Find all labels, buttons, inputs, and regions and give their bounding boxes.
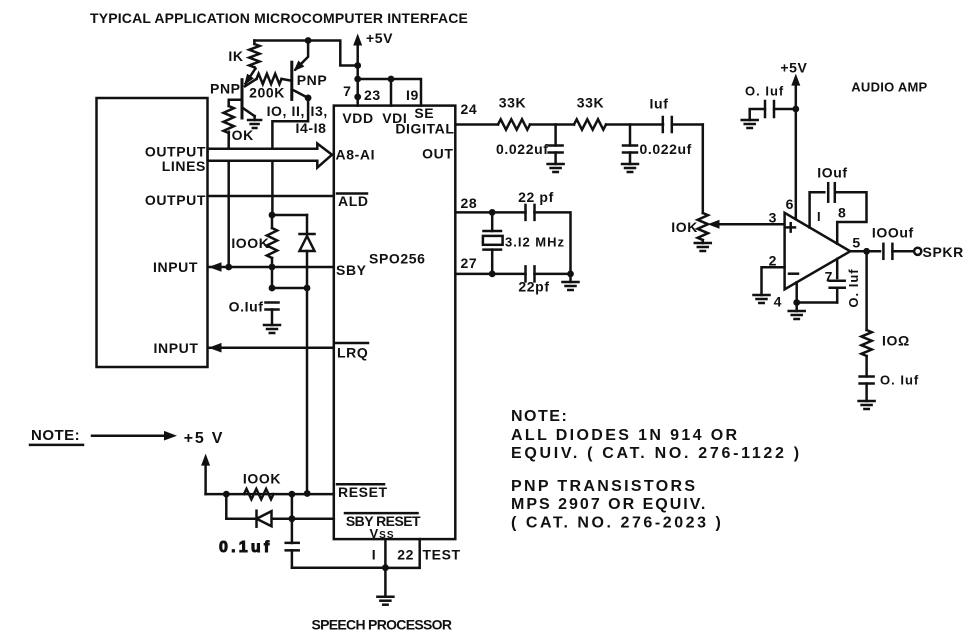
resistor 1K bbox=[249, 44, 259, 67]
resistor 33K (first) bbox=[498, 119, 530, 129]
svg-text:ALD: ALD bbox=[338, 193, 369, 209]
svg-text:PNP: PNP bbox=[297, 72, 328, 88]
svg-text:28: 28 bbox=[461, 195, 478, 211]
Q2 collector bbox=[292, 89, 308, 98]
diode D2 bbox=[255, 511, 258, 527]
wire top rail bbox=[254, 41, 357, 66]
wire VD1 pin drop bbox=[390, 79, 393, 106]
svg-text:I: I bbox=[372, 546, 377, 562]
pin label SBY RESET (overline) bbox=[345, 512, 418, 515]
transistor Q1 PNP (left) bbox=[241, 80, 244, 118]
wire link reset rows bbox=[291, 494, 294, 519]
svg-text:PNP TRANSISTORS: PNP TRANSISTORS bbox=[511, 478, 697, 495]
node 100K top bbox=[269, 212, 276, 219]
node Q2 collector bbox=[305, 95, 312, 102]
node rail/VD1 bbox=[388, 76, 395, 83]
svg-text:LINES: LINES bbox=[162, 158, 206, 174]
svg-text:NOTE:: NOTE: bbox=[31, 427, 80, 444]
svg-text:DIGITAL: DIGITAL bbox=[395, 121, 454, 137]
svg-text:OUTPUT: OUTPUT bbox=[145, 192, 206, 208]
svg-text:O. Iuf: O. Iuf bbox=[846, 268, 861, 307]
resistor 10 ohm bbox=[861, 330, 871, 356]
ground (second 0.022uf) bbox=[622, 163, 638, 166]
svg-text:8: 8 bbox=[838, 205, 846, 221]
resistor 200K bbox=[257, 74, 282, 84]
node 0.1uf tap bbox=[289, 515, 296, 522]
wire filter to pot bbox=[702, 125, 705, 214]
ground (pot) bbox=[695, 242, 711, 245]
svg-text:4: 4 bbox=[774, 294, 782, 310]
svg-text:3: 3 bbox=[769, 210, 777, 226]
svg-text:27: 27 bbox=[461, 255, 478, 271]
svg-text:TYPICAL APPLICATION MICROCOMPU: TYPICAL APPLICATION MICROCOMPUTER INTERF… bbox=[90, 10, 468, 26]
ground (first 0.022uf) bbox=[548, 163, 564, 166]
microcomputer box bbox=[97, 98, 208, 367]
wire RESET rail bbox=[206, 493, 334, 496]
op chip SPO256 body bbox=[334, 106, 456, 539]
svg-text:24: 24 bbox=[461, 101, 478, 117]
svg-text:SPKR: SPKR bbox=[923, 244, 964, 260]
diode D1 bbox=[306, 215, 309, 234]
wire pin23/19 rail bbox=[358, 79, 421, 106]
svg-text:SPEECH PROCESSOR: SPEECH PROCESSOR bbox=[312, 617, 452, 633]
node link right bbox=[304, 285, 311, 292]
node top-rail/emitter junction bbox=[305, 37, 312, 44]
ground (pin2) bbox=[754, 294, 770, 297]
svg-text:IOOK: IOOK bbox=[243, 471, 281, 487]
svg-text:A8-AI: A8-AI bbox=[336, 147, 376, 163]
svg-text:IO, II,: IO, II, bbox=[267, 103, 305, 119]
svg-text:0.1uf: 0.1uf bbox=[219, 539, 272, 556]
svg-text:LRQ: LRQ bbox=[337, 345, 368, 361]
svg-text:7: 7 bbox=[343, 83, 351, 99]
wire down from +5 node to diode row bbox=[225, 494, 228, 519]
svg-text:5: 5 bbox=[852, 235, 860, 251]
pin 4 wire bbox=[795, 282, 798, 311]
svg-text:200K: 200K bbox=[249, 85, 285, 101]
node diode chain lands bbox=[304, 490, 311, 497]
capacitor 0.1uf (reset) bbox=[291, 519, 294, 543]
svg-text:OUT: OUT bbox=[422, 146, 453, 162]
svg-text:22 pf: 22 pf bbox=[518, 189, 554, 205]
capacitor 22pf (top) bbox=[492, 211, 525, 214]
node crystal right bbox=[567, 271, 574, 278]
svg-text:7: 7 bbox=[825, 269, 833, 285]
svg-text:22: 22 bbox=[397, 546, 414, 562]
pin 7 wire + bypass cap bbox=[836, 259, 839, 278]
capacitor 0.022uf (first) bbox=[554, 125, 557, 146]
bottom pin box 1 / 22 / TEST bbox=[385, 539, 419, 568]
svg-text:PNP: PNP bbox=[210, 81, 241, 97]
pin label ALD (overline) bbox=[337, 192, 367, 195]
capacitor 22pf (bottom) bbox=[492, 273, 525, 276]
node pin1/gnd bbox=[382, 564, 389, 571]
pin label RESET (overline) bbox=[337, 483, 384, 486]
zobel: wire down bbox=[865, 251, 868, 330]
wire pin2 to ground bbox=[762, 267, 785, 295]
node +5V rail joins bbox=[354, 62, 361, 69]
arrow NOTE to +5V bbox=[92, 434, 165, 437]
wire INPUT/SBY bbox=[209, 266, 334, 269]
svg-text:IOuf: IOuf bbox=[817, 165, 847, 181]
svg-text:EQUIV. ( CAT. NO. 276-1122 ): EQUIV. ( CAT. NO. 276-1122 ) bbox=[511, 445, 802, 462]
svg-text:0.022uf: 0.022uf bbox=[640, 141, 692, 157]
capacitor 0.1uf (SBY) bbox=[266, 301, 279, 304]
wire pin28 bbox=[455, 211, 492, 214]
svg-text:ALL DIODES 1N 914 OR: ALL DIODES 1N 914 OR bbox=[511, 427, 740, 444]
svg-text:MPS 2907 OR EQUIV.: MPS 2907 OR EQUIV. bbox=[511, 496, 707, 513]
svg-text:IOOK: IOOK bbox=[231, 235, 269, 251]
svg-text:( CAT. NO. 276-2023 ): ( CAT. NO. 276-2023 ) bbox=[511, 514, 723, 531]
svg-text:33K: 33K bbox=[577, 95, 604, 111]
ground (Q1) bbox=[248, 119, 261, 122]
svg-text:IOOuf: IOOuf bbox=[872, 224, 914, 240]
+5V supply (top) bbox=[356, 40, 359, 106]
ground (supply bypass) bbox=[742, 119, 758, 122]
svg-text:I: I bbox=[817, 209, 822, 224]
SPKR terminal bbox=[892, 250, 914, 253]
svg-text:6: 6 bbox=[786, 196, 794, 212]
node output bbox=[863, 248, 870, 255]
svg-text:+5V: +5V bbox=[780, 60, 807, 76]
wire INPUT/LRQ bbox=[209, 346, 334, 349]
pin 1 wire bbox=[810, 192, 825, 227]
resistor 100K bbox=[267, 228, 277, 258]
ground (Vss) bbox=[377, 595, 393, 598]
Q1 base wire to 10K bbox=[229, 100, 242, 106]
+5V up arrow (reset) bbox=[204, 460, 207, 494]
svg-text:I9: I9 bbox=[406, 87, 419, 103]
svg-text:Iuf: Iuf bbox=[650, 96, 669, 112]
wire Q2 collector down-left to 100K node bbox=[272, 98, 308, 215]
wire pin27 bbox=[455, 273, 492, 276]
node pin4/pin7 gnd bbox=[793, 299, 800, 306]
svg-text:I4-I8: I4-I8 bbox=[295, 120, 326, 136]
svg-text:23: 23 bbox=[364, 87, 381, 103]
svg-text:IOΩ: IOΩ bbox=[882, 333, 910, 349]
svg-text:O.Iuf: O.Iuf bbox=[229, 299, 264, 315]
wire 10K down to INPUT/SBY junction bbox=[227, 133, 230, 267]
wire SBY RESET row bbox=[226, 517, 333, 520]
wire link bbox=[272, 287, 307, 290]
svg-text:SBY RESET: SBY RESET bbox=[346, 513, 421, 529]
pin label LRQ (overline) bbox=[336, 342, 368, 345]
svg-text:3.I2 MHz: 3.I2 MHz bbox=[505, 235, 565, 250]
resistor 10K bbox=[224, 106, 234, 133]
crystal 3.12MHz bbox=[491, 212, 494, 231]
node +5V/bypass bbox=[792, 106, 799, 113]
resistor 100K (reset) bbox=[244, 489, 274, 499]
svg-text:IOK: IOK bbox=[227, 127, 254, 143]
svg-text:+5 V: +5 V bbox=[184, 430, 225, 447]
svg-text:O. Iuf: O. Iuf bbox=[745, 84, 784, 99]
node 100K/SBY bbox=[269, 264, 276, 271]
potentiometer 10K bbox=[698, 213, 708, 240]
svg-text:33K: 33K bbox=[499, 95, 526, 111]
svg-text:0.022uf: 0.022uf bbox=[496, 141, 548, 157]
ground (zobel) bbox=[859, 400, 875, 403]
capacitor 1uf bbox=[662, 117, 665, 132]
svg-text:SBY: SBY bbox=[336, 262, 367, 278]
ground (crystal) bbox=[563, 281, 579, 284]
node link left bbox=[269, 285, 276, 292]
transistor Q2 PNP (right) bbox=[290, 62, 293, 99]
svg-text:IK: IK bbox=[228, 48, 243, 64]
svg-text:IOK: IOK bbox=[671, 219, 698, 235]
node 10K/SBY bbox=[225, 264, 232, 271]
wire pin24 out bbox=[455, 123, 498, 126]
svg-text:O. Iuf: O. Iuf bbox=[880, 373, 919, 388]
svg-text:TEST: TEST bbox=[423, 546, 461, 562]
svg-text:22pf: 22pf bbox=[518, 279, 549, 295]
svg-text:RESET: RESET bbox=[338, 484, 388, 500]
wire OUTPUT to ALD bbox=[208, 195, 334, 198]
ground (pin4) bbox=[789, 310, 805, 313]
capacitor 10uf bbox=[827, 183, 830, 202]
pin 8 wire bbox=[836, 192, 867, 243]
bus arrow OUTPUT LINES to A8-A1 bbox=[208, 144, 332, 168]
pot wiper arrow to pin3 bbox=[714, 223, 785, 226]
wire bottom to pin1 bbox=[292, 566, 386, 569]
svg-text:+5V: +5V bbox=[366, 30, 393, 46]
resistor 33K (second) bbox=[574, 119, 606, 129]
svg-text:SPO256: SPO256 bbox=[369, 251, 426, 267]
svg-text:I3,: I3, bbox=[311, 103, 328, 119]
op-amp U1 triangle bbox=[785, 213, 851, 289]
svg-text:AUDIO AMP: AUDIO AMP bbox=[851, 80, 927, 95]
svg-text:VDD: VDD bbox=[342, 110, 373, 126]
ground (SBY cap) bbox=[264, 324, 280, 327]
Q1 collector to ground bbox=[242, 107, 255, 116]
capacitor 100uf bbox=[882, 244, 885, 259]
capacitor 0.1uf (zobel) bbox=[860, 375, 874, 378]
svg-text:INPUT: INPUT bbox=[154, 340, 199, 356]
svg-text:INPUT: INPUT bbox=[153, 259, 198, 275]
svg-text:SE: SE bbox=[414, 105, 434, 121]
capacitor 0.022uf (second) bbox=[629, 125, 632, 146]
wire to diode branch bbox=[272, 214, 307, 217]
svg-text:NOTE:: NOTE: bbox=[511, 408, 568, 425]
